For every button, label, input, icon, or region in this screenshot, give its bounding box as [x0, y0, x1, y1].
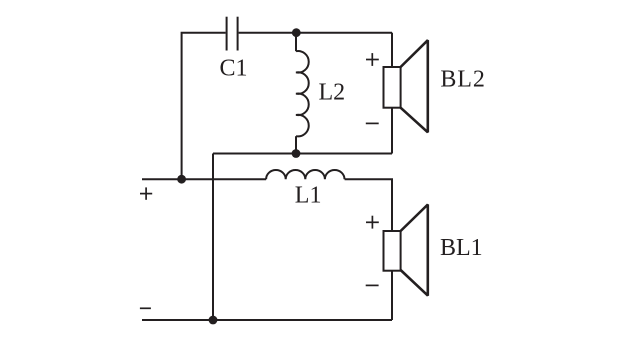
node junction dot bottom rail	[209, 316, 218, 325]
inductor L1	[266, 170, 344, 179]
wire top rail left of C1	[182, 33, 226, 180]
node junction dot bottom of L2	[292, 149, 301, 158]
capacitor C1	[227, 17, 238, 51]
wire mid-to-bottom vertical	[212, 154, 214, 321]
svg-text:L2: L2	[319, 80, 346, 106]
minus sign BL1	[366, 284, 379, 286]
wire BL1 minus lead	[391, 270, 393, 320]
wire bottom rail	[142, 319, 392, 321]
plus sign BL1	[366, 216, 379, 229]
node junction dot input plus	[177, 175, 186, 184]
plus sign BL2	[366, 53, 379, 66]
svg-text:C1: C1	[220, 56, 248, 82]
svg-text:BL1: BL1	[440, 235, 483, 261]
speaker BL2	[384, 40, 428, 132]
node junction dot top of L2	[292, 28, 301, 37]
wire L2 top lead	[295, 33, 297, 52]
wire top rail right of C1	[239, 32, 392, 34]
wire input plus rail	[142, 178, 266, 180]
wire L1 to BL1	[345, 179, 392, 231]
wire mid rail	[213, 153, 392, 155]
speaker BL1	[384, 205, 428, 296]
minus sign input	[140, 307, 151, 309]
inductor L2	[296, 51, 309, 136]
plus sign input	[140, 187, 152, 199]
wire BL2 minus lead	[391, 108, 393, 154]
minus sign BL2	[366, 122, 379, 124]
svg-text:BL2: BL2	[440, 67, 485, 93]
wire BL2 plus lead	[391, 33, 393, 67]
wire L2 bottom lead	[295, 136, 297, 153]
svg-text:L1: L1	[295, 183, 322, 209]
